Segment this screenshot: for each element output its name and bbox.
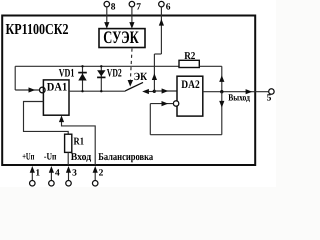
wire DA1 lower input from balance pin 2 with up arrow: [59, 115, 95, 165]
pin 8 terminal: [104, 1, 116, 12]
svg-text:6: 6: [166, 3, 171, 13]
svg-text:DA2: DA2: [181, 79, 200, 91]
svg-text:7: 7: [136, 3, 141, 13]
pin 4 terminal (-Uп): [49, 166, 60, 186]
svg-text:ЭК: ЭК: [134, 71, 148, 83]
chip body outline: [2, 16, 255, 166]
svg-text:8: 8: [111, 3, 116, 13]
wire pin 7 to СУЭК with down arrow: [129, 7, 134, 29]
wire DA2 output to pin 5 with arrow: [203, 89, 268, 94]
diode VD1 (cathode up): [78, 65, 87, 92]
svg-text:R1: R1: [74, 136, 85, 147]
wire pin 6 down to storage node with up arrow near border: [152, 7, 164, 91]
resistor R1: [65, 134, 84, 152]
svg-text:СУЭК: СУЭК: [103, 27, 139, 47]
svg-text:+Uп: +Uп: [22, 152, 34, 163]
pin 6 terminal: [159, 1, 171, 12]
pin 1 terminal (+Uп): [30, 166, 41, 186]
svg-text:5: 5: [267, 93, 272, 103]
switch right contact arrow from storage node: [142, 89, 154, 94]
svg-text:4: 4: [55, 169, 60, 179]
electronic switch ЭК arm: [125, 82, 143, 91]
wire R1 bottom to input pin 3: [67, 152, 69, 165]
svg-text:DA1: DA1: [47, 81, 68, 93]
op-amp DA2: [177, 76, 203, 116]
svg-text:3: 3: [72, 169, 77, 179]
junction storage node: [153, 90, 156, 93]
svg-text:Балансировка: Балансировка: [98, 152, 154, 163]
wire storage node to DA2 non-inverting input with arrow: [154, 88, 177, 93]
svg-text:-Uп: -Uп: [44, 152, 57, 163]
pin 2 terminal (Балансировка): [92, 166, 103, 186]
junction output node: [220, 90, 223, 93]
wire DA1 second input loop to R1 top: [24, 102, 69, 135]
svg-text:КР1100СК2: КР1100СК2: [6, 21, 69, 38]
wire DA2 feedback: output node down, left, up to inverting input: [150, 92, 224, 135]
svg-text:2: 2: [99, 169, 104, 179]
control unit U1 СУЭК: [99, 27, 145, 47]
svg-text:Вход: Вход: [71, 152, 92, 163]
pin 5 terminal: [267, 89, 275, 104]
diode VD2 (cathode down): [97, 65, 105, 92]
svg-text:VD2: VD2: [107, 68, 122, 80]
op-amp DA1: [43, 80, 69, 115]
pin 3 terminal (Вход): [66, 166, 77, 186]
paper background: [0, 0, 276, 187]
node A feedback rail (DA1 inverting bus): [15, 65, 179, 67]
svg-text:R2: R2: [184, 51, 195, 62]
wire pin 8 to СУЭК with down arrow: [104, 7, 109, 29]
resistor R2: [179, 51, 199, 68]
wire DA1 output rail to switch: [69, 90, 125, 92]
pin 7 terminal: [129, 1, 141, 12]
inverting input bubble of DA1: [40, 87, 46, 93]
wire feedback rail down-left to DA1 inverting input: [15, 66, 39, 92]
wire R2 right end down to output node with up arrow: [199, 66, 224, 91]
svg-text:Выход: Выход: [228, 94, 250, 104]
svg-text:1: 1: [35, 169, 40, 179]
dashed control wire from СУЭК to switch with down arrow: [128, 49, 134, 87]
inverting input bubble of DA2: [173, 101, 178, 106]
svg-text:VD1: VD1: [59, 68, 75, 80]
